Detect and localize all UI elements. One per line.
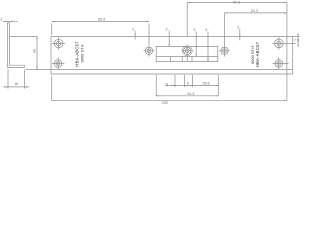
dimension 97.3 arrows [187, 2, 287, 3]
shared right datum ext line [286, 3, 288, 101]
vertical dimension 30 line [36, 36, 38, 69]
bottom small dims arrows [173, 85, 219, 86]
svg-text:3: 3 [193, 28, 195, 32]
internal shelf line [156, 55, 218, 57]
hole top-right crosshair [273, 37, 296, 50]
callout 3 at block top edge [168, 31, 170, 47]
dimension 95.4 arrows [52, 21, 149, 22]
main plate outline [51, 36, 293, 74]
bottom small dims ext lines [156, 75, 218, 96]
svg-text:9: 9 [187, 81, 189, 85]
callout 3 at plate top edge [134, 31, 136, 40]
hole bottom-right outer [275, 60, 283, 68]
bottom small dims line [166, 85, 218, 87]
hole bottom-right crosshair [273, 58, 289, 70]
svg-text:3: 3 [132, 27, 134, 31]
svg-text:95.4: 95.4 [98, 17, 105, 21]
hole mid-2 crosshair [182, 45, 193, 61]
svg-text:230: 230 [162, 101, 168, 105]
dimension 16 arrows [5, 86, 27, 87]
hole bottom-right inner [277, 62, 281, 66]
dimension 230 line [52, 99, 287, 101]
dimension 95.4 line [52, 21, 149, 23]
dimension 16 line [3, 86, 29, 88]
svg-text:25.8: 25.8 [203, 81, 210, 85]
dimension 230 ext line left [51, 76, 53, 101]
left end view: L-profile foot [7, 65, 24, 67]
hole top-left crosshair [52, 37, 65, 50]
svg-text:7.5: 7.5 [294, 38, 299, 42]
hole top-right inner [277, 41, 281, 45]
svg-text:3: 3 [205, 28, 207, 32]
vertical dimension 30 arrows [36, 36, 37, 69]
hole top-left inner [57, 41, 61, 45]
dimension 95.4 ext lines [52, 24, 149, 45]
dimension 97.3 ext line left [186, 3, 188, 37]
dimension 3 (leg thickness) line [3, 20, 18, 22]
svg-text:61.5: 61.5 [188, 92, 195, 96]
svg-text:3: 3 [165, 27, 167, 31]
counterbore circle around middle hole [182, 46, 192, 56]
svg-text:9000 STH: 9000 STH [80, 44, 85, 62]
hole bottom-left crosshair [52, 58, 64, 70]
hole mid-2 inner [185, 49, 189, 53]
hole top-right outer [275, 39, 284, 48]
hole bottom-left inner [56, 62, 60, 66]
svg-text:61.3: 61.3 [251, 9, 258, 13]
dimension 97.3 line [187, 2, 287, 4]
svg-text:97.3: 97.3 [233, 0, 240, 4]
hole bottom-left outer [54, 60, 62, 68]
hole top-left outer [54, 39, 63, 48]
short callout lines above block [196, 32, 208, 62]
dimension 61.3 ext line left (hole centerline up) [224, 13, 226, 45]
svg-text:3: 3 [0, 18, 2, 22]
hole mid-3 crosshair [219, 45, 230, 57]
callout 3 at right hole level [239, 29, 241, 40]
svg-text:3: 3 [237, 26, 239, 30]
dimension 3 arrows [5, 21, 12, 22]
dimension 16 ext lines under foot [8, 69, 24, 88]
internal divider verticals [170, 56, 192, 61]
hole mid-3 outer [221, 47, 228, 54]
hole mid-3 inner [223, 49, 227, 53]
fold line extension to left view [26, 69, 51, 71]
dimension 61.5 line [156, 95, 219, 97]
hole mid-1 inner [147, 49, 151, 53]
hole mid-2 outer [184, 47, 191, 54]
hole mid-1 crosshair [143, 45, 154, 57]
dimension 230 arrows [52, 100, 287, 101]
dimension 7.5 arrows [297, 34, 298, 46]
svg-text:HBA-ABC67: HBA-ABC67 [255, 41, 260, 67]
svg-text:10: 10 [165, 83, 169, 87]
dimension 61.3 arrows [225, 12, 287, 13]
raised block rectangle [156, 46, 218, 61]
left end view: L-profile vertical leg [7, 23, 9, 68]
dimension 7.5 right edge ext [293, 33, 300, 46]
svg-text:16: 16 [14, 82, 18, 86]
plate top edge extension to left [10, 35, 37, 37]
svg-text:30: 30 [32, 49, 36, 53]
dimension 61.3 line [225, 12, 287, 14]
hole mid-1 outer [145, 47, 152, 54]
dimension 61.5 arrows [156, 95, 219, 96]
